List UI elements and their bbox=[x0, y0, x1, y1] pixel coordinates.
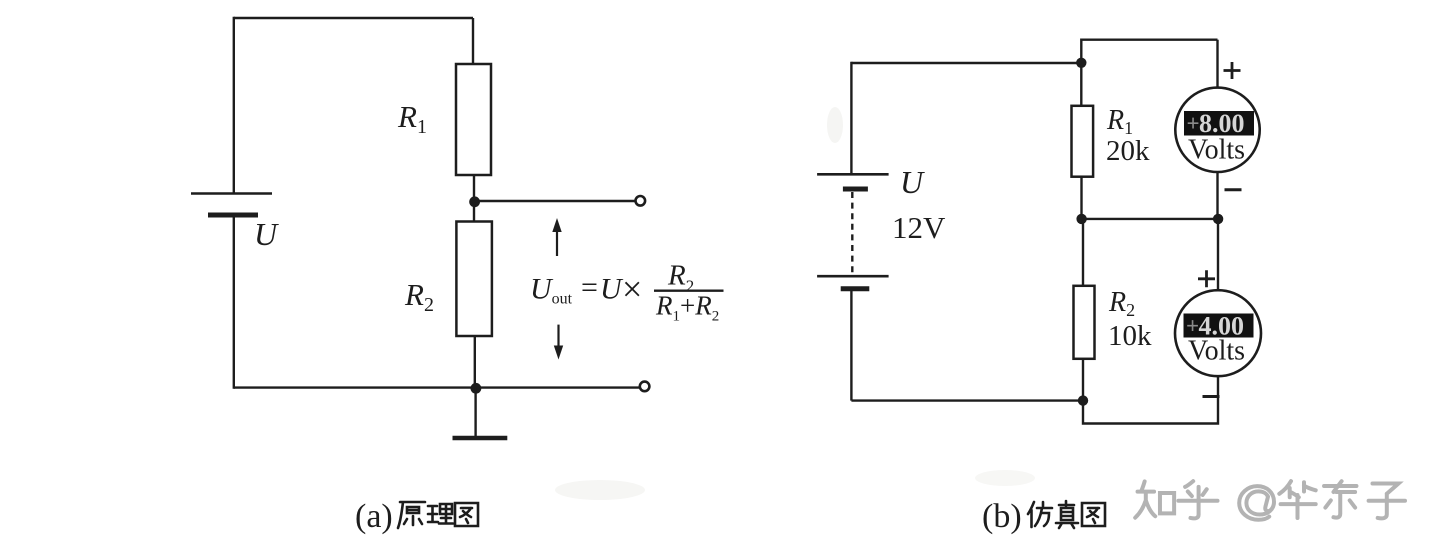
svg-text:Volts: Volts bbox=[1188, 135, 1245, 166]
terminal: lower output bbox=[640, 382, 650, 392]
arrow: Uout down bbox=[554, 325, 563, 360]
wire: voltmeter V1 bottom lead bbox=[1216, 172, 1218, 219]
svg-text:U: U bbox=[254, 216, 279, 252]
node: middle-right junction dot bbox=[1213, 214, 1223, 224]
svg-text:=: = bbox=[581, 271, 598, 304]
battery U 12V cell-2 negative plate bbox=[841, 286, 870, 291]
voltmeter V2 display +4.00 bbox=[1184, 312, 1254, 341]
char 乎 bbox=[1178, 481, 1217, 518]
resistor R1 (a) bbox=[456, 64, 491, 175]
wire: ground stem bbox=[474, 388, 476, 436]
node: bottom junction dot bbox=[1078, 395, 1088, 405]
wire: battery bottom vertical (b) bbox=[850, 291, 852, 401]
char 仿 bbox=[1028, 502, 1052, 527]
battery dashed link bbox=[851, 192, 853, 273]
voltmeter V1 display +8.00 bbox=[1184, 109, 1254, 138]
wire: bottom rail (b) bbox=[851, 399, 1083, 401]
node: battery tap junction dot bbox=[1076, 58, 1086, 68]
label + (V2) bbox=[1198, 270, 1215, 287]
char 理 bbox=[428, 504, 453, 524]
wire: middle rail (b) bbox=[1082, 218, 1219, 220]
node B junction dot bbox=[471, 383, 482, 394]
wire: R2 to bottom junction bbox=[1082, 359, 1084, 401]
caption (b) 仿真图 bbox=[982, 498, 1105, 535]
wire: top rail to R1 (a) bbox=[472, 18, 474, 64]
wire: top rail down to R1 (b) bbox=[1080, 39, 1082, 106]
voltmeter V1 body bbox=[1175, 88, 1259, 172]
svg-text:(b): (b) bbox=[982, 498, 1022, 535]
wire: R1 to node A bbox=[473, 175, 475, 202]
wire: bottom loop bbox=[1083, 376, 1218, 423]
char 图 bbox=[1082, 503, 1105, 526]
char 知 bbox=[1135, 481, 1174, 517]
svg-text:×: × bbox=[622, 269, 642, 309]
formula: Uout = U x R2/(R1+R2) bbox=[530, 260, 724, 325]
label minus (V2) bbox=[1203, 395, 1220, 398]
battery U 12V cell-1 positive plate bbox=[817, 173, 889, 176]
battery U 12V cell-1 negative plate bbox=[843, 187, 868, 192]
wire: left vertical lower (a) bbox=[233, 217, 235, 389]
wire: node A to R2 bbox=[473, 202, 475, 222]
wire: R1 to middle rail bbox=[1080, 177, 1082, 219]
battery U 12V cell-2 positive plate bbox=[817, 275, 889, 278]
watermark 知乎 @华东子 bbox=[1135, 481, 1405, 520]
node: middle-left junction dot bbox=[1076, 214, 1086, 224]
svg-text:Volts: Volts bbox=[1188, 336, 1245, 367]
wire: top rail (a) bbox=[234, 17, 473, 19]
svg-text:U: U bbox=[600, 273, 624, 306]
resistor R2 (b) bbox=[1074, 286, 1095, 359]
wire: R2 to bottom rail bbox=[474, 336, 476, 388]
char 真 bbox=[1056, 501, 1078, 528]
wire: voltmeter V2 top lead bbox=[1217, 219, 1219, 290]
voltmeter V2 body bbox=[1175, 290, 1261, 376]
label minus (V1) bbox=[1225, 188, 1242, 191]
svg-text:10k: 10k bbox=[1108, 320, 1152, 352]
caption (a) 原理图 bbox=[355, 498, 478, 535]
svg-text:U: U bbox=[900, 164, 925, 200]
arrow: Uout up bbox=[552, 218, 561, 256]
svg-text:(a): (a) bbox=[355, 498, 393, 535]
terminal: upper output bbox=[636, 196, 646, 206]
svg-text:12V: 12V bbox=[892, 210, 946, 245]
wire: battery top horizontal (b) bbox=[851, 62, 1081, 64]
resistor R2 (a) bbox=[456, 222, 492, 337]
char 子 bbox=[1369, 483, 1405, 518]
svg-text:20k: 20k bbox=[1106, 135, 1150, 167]
wire: bottom rail (a) bbox=[234, 386, 639, 388]
wire: left vertical upper (a) bbox=[233, 17, 235, 194]
wire: top rail (b) bbox=[1081, 39, 1217, 41]
svg-text:R1+R2: R1+R2 bbox=[655, 291, 719, 325]
ground symbol bbox=[453, 436, 508, 441]
wire: voltmeter V1 top lead bbox=[1216, 40, 1218, 88]
node A junction dot bbox=[469, 196, 480, 207]
svg-text:+: + bbox=[1187, 111, 1200, 136]
char 原 bbox=[398, 502, 425, 528]
resistor R1 (b) bbox=[1072, 106, 1094, 177]
at-sign bbox=[1239, 486, 1274, 520]
char 华 bbox=[1279, 481, 1315, 518]
char 图 bbox=[455, 503, 478, 526]
wire: node A to upper terminal bbox=[474, 200, 635, 202]
wire: middle rail to R2 bbox=[1082, 219, 1084, 286]
char 东 bbox=[1324, 481, 1356, 517]
battery U (a) negative plate bbox=[208, 213, 258, 218]
label + (V1) bbox=[1224, 62, 1241, 79]
wire: battery top vertical (b) bbox=[850, 62, 852, 174]
faint scan smudges bbox=[555, 480, 645, 500]
battery U (a) positive plate bbox=[191, 192, 272, 195]
